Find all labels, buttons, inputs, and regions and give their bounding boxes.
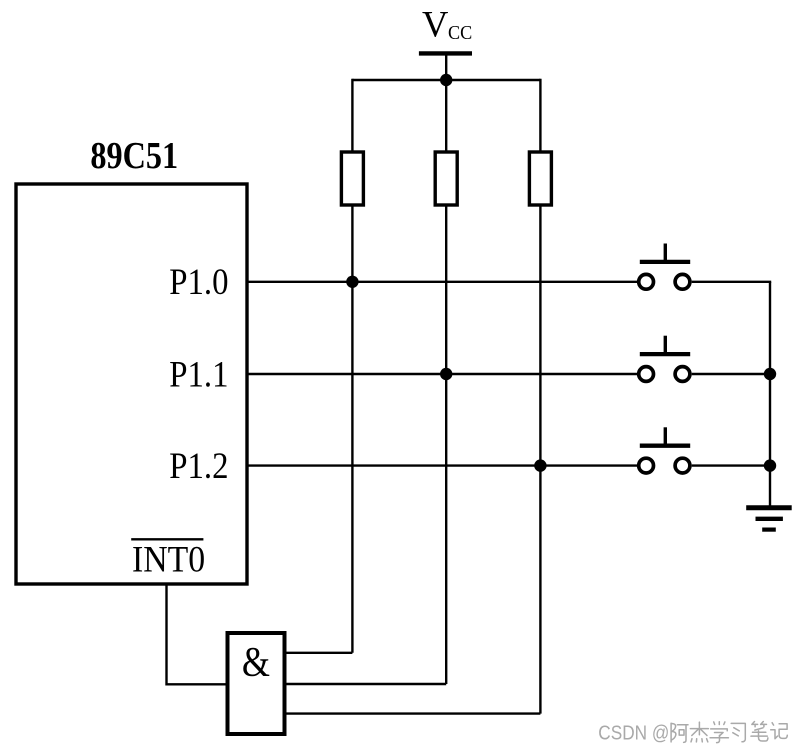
node: right bus / S2 junction bbox=[764, 368, 776, 380]
wire: P1.2 pin to switch S3 bbox=[246, 464, 637, 466]
svg-text:89C51: 89C51 bbox=[90, 135, 178, 177]
resistor R3 bbox=[529, 152, 551, 205]
wire: P1.1 pin to switch S2 bbox=[246, 373, 637, 375]
svg-text:CSDN @: CSDN @ bbox=[598, 722, 669, 745]
wire: switch S3 to right bus bbox=[692, 464, 770, 466]
wire: column 3 vertical (rail to AND gate input wire) bbox=[539, 79, 541, 714]
node: P1.1 / column 2 junction bbox=[440, 368, 452, 380]
wire: column 2 vertical (rail to AND gate input wire) bbox=[445, 80, 447, 684]
ground bbox=[746, 508, 792, 530]
pin label INT0 with overline bbox=[131, 539, 205, 580]
wire: AND gate to column 2 bbox=[285, 683, 446, 685]
svg-text:CC: CC bbox=[448, 22, 472, 44]
svg-text:P1.0: P1.0 bbox=[169, 262, 228, 303]
wire: AND gate to column 3 bbox=[285, 712, 540, 714]
svg-text:INT0: INT0 bbox=[132, 539, 205, 580]
label VCC bbox=[422, 3, 472, 44]
switch S3 bbox=[639, 427, 691, 473]
wire: VCC stub bbox=[445, 54, 447, 80]
node: right bus / S3 junction bbox=[764, 459, 776, 471]
svg-text:P1.1: P1.1 bbox=[169, 354, 228, 395]
watermark CJK characters (drawn strokes) bbox=[671, 722, 787, 743]
wire: AND gate to column 1 bbox=[285, 652, 352, 654]
switch S2 bbox=[639, 336, 691, 382]
resistor R2 bbox=[435, 152, 457, 205]
wire: INT0 pin to AND gate input bbox=[167, 584, 228, 684]
wire: right bus vertical to ground bbox=[769, 282, 771, 507]
AND gate U2 body bbox=[228, 633, 285, 734]
node: P1.2 / column 3 junction bbox=[534, 459, 546, 471]
watermark CSDN text bbox=[598, 722, 670, 746]
IC U1 89C51 body bbox=[16, 184, 247, 584]
svg-text:P1.2: P1.2 bbox=[169, 446, 228, 487]
wire: P1.0 pin to switch S1 bbox=[246, 281, 637, 283]
resistor R1 bbox=[341, 152, 363, 205]
wire: switch S1 to right bus (corner) bbox=[692, 282, 770, 283]
wire: column 1 vertical (rail to AND gate input wire) bbox=[351, 79, 353, 653]
wire: VCC rail from R1 top to R3 top bbox=[352, 79, 540, 81]
node: P1.0 / column 1 junction bbox=[346, 276, 358, 288]
node: VCC rail junction bbox=[440, 74, 452, 86]
power symbol VCC bar bbox=[419, 51, 472, 55]
svg-text:&: & bbox=[242, 640, 270, 686]
svg-text:V: V bbox=[422, 3, 448, 44]
wire: switch S2 to right bus bbox=[692, 373, 770, 375]
switch S1 bbox=[639, 244, 691, 290]
